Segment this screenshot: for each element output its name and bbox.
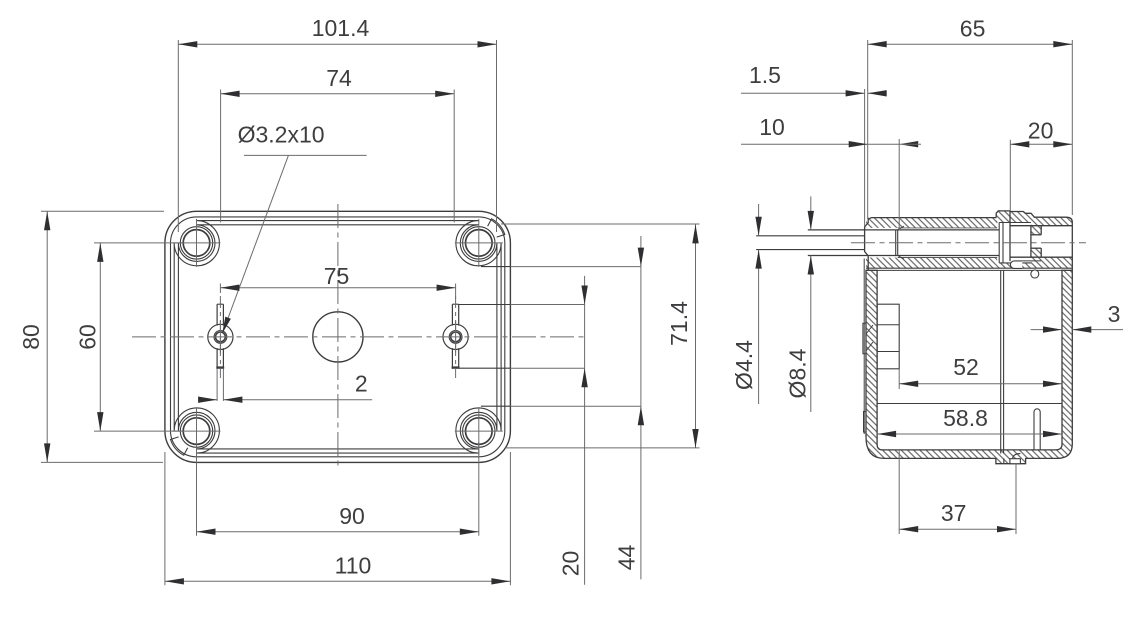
svg-text:1.5: 1.5 bbox=[749, 62, 781, 88]
svg-text:44: 44 bbox=[614, 545, 640, 571]
svg-text:10: 10 bbox=[759, 114, 785, 140]
svg-text:101.4: 101.4 bbox=[312, 15, 370, 41]
svg-text:71.4: 71.4 bbox=[666, 301, 692, 346]
svg-text:58.8: 58.8 bbox=[943, 405, 988, 431]
svg-text:60: 60 bbox=[75, 324, 101, 350]
svg-text:52: 52 bbox=[953, 354, 979, 380]
svg-text:Ø3.2x10: Ø3.2x10 bbox=[238, 122, 325, 148]
svg-text:110: 110 bbox=[335, 553, 372, 579]
svg-text:2: 2 bbox=[355, 371, 368, 397]
svg-text:Ø8.4: Ø8.4 bbox=[785, 348, 811, 398]
svg-text:75: 75 bbox=[324, 263, 350, 289]
svg-text:20: 20 bbox=[1028, 118, 1054, 144]
svg-text:37: 37 bbox=[941, 500, 967, 526]
svg-text:80: 80 bbox=[18, 324, 44, 350]
svg-text:90: 90 bbox=[339, 503, 365, 529]
svg-text:74: 74 bbox=[326, 65, 352, 91]
svg-text:20: 20 bbox=[558, 551, 584, 577]
svg-text:3: 3 bbox=[1108, 301, 1121, 327]
svg-text:Ø4.4: Ø4.4 bbox=[731, 340, 757, 390]
svg-text:65: 65 bbox=[960, 15, 986, 41]
